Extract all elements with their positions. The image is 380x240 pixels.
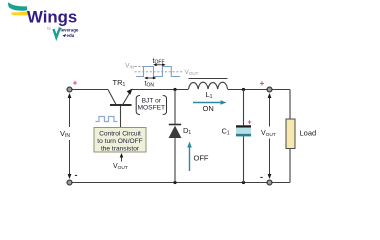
Vout measure arrow lower: [269, 139, 271, 178]
wire bottom rail: [70, 182, 291, 184]
capacitor C1 dielectric: [236, 128, 251, 134]
svg-text:VIN: VIN: [125, 63, 134, 70]
svg-text:tOFF: tOFF: [153, 56, 165, 66]
transistor TR1 base wire: [120, 106, 122, 128]
svg-text:D1: D1: [183, 126, 191, 136]
svg-text:-: -: [260, 172, 263, 182]
OFF current arrow: [189, 146, 191, 171]
svg-text:VOUT: VOUT: [113, 163, 128, 171]
capacitor C1 bottom plate: [236, 134, 251, 137]
transistor TR1 emitter arrowhead: [127, 89, 133, 95]
Vin measure arrow lower: [69, 140, 71, 178]
diode D1 triangle: [169, 126, 182, 138]
capacitor C1 wire upper: [243, 90, 245, 126]
svg-text:leverage: leverage: [61, 28, 79, 33]
svg-text:VIN: VIN: [60, 129, 70, 139]
svg-text:BJT or: BJT or: [142, 97, 162, 104]
wire right edge bottom: [289, 149, 291, 183]
svg-text:TR1: TR1: [113, 78, 126, 88]
svg-text:+: +: [73, 79, 78, 88]
diode D1 wire lower: [174, 138, 176, 183]
logo wing swoosh teal: [8, 2, 27, 10]
svg-text:C1: C1: [222, 127, 230, 137]
logo leverage-edu check: [54, 28, 61, 38]
capacitor C1 top plate: [236, 125, 251, 127]
svg-text:to turn ON/OFF: to turn ON/OFF: [97, 138, 142, 145]
svg-text:edu: edu: [67, 33, 75, 38]
inductor L1 top bar: [189, 78, 228, 80]
capacitor C1 wire lower: [243, 136, 245, 182]
node input minus terminal: [67, 180, 72, 185]
waveform mid dashed level: [135, 71, 184, 73]
transistor TR1 emitter diagonal: [123, 92, 131, 106]
svg-text:ON: ON: [203, 104, 214, 113]
wire top rail right segment: [228, 89, 291, 91]
waveform tON marker: [146, 77, 148, 79]
node output minus terminal: [267, 180, 272, 185]
inductor L1 coil: [189, 82, 228, 89]
Vin measure arrow upper: [69, 95, 71, 128]
svg-text:+: +: [247, 120, 251, 127]
junction capacitor bottom: [242, 181, 245, 184]
Vout measure arrow upper: [269, 95, 271, 127]
svg-text:Wings: Wings: [27, 8, 77, 27]
svg-text:L1: L1: [206, 90, 213, 100]
wire top rail left segment: [70, 89, 109, 91]
transistor TR1 base bar: [110, 104, 132, 106]
control circuit box: [94, 128, 146, 153]
control Vout arrow: [121, 155, 123, 162]
diode D1 cathode bar: [169, 124, 181, 126]
transistor TR1 collector diagonal: [108, 90, 116, 105]
node output plus terminal: [267, 87, 272, 92]
waveform tOFF marker: [155, 64, 157, 66]
svg-text:VOUT: VOUT: [261, 130, 276, 138]
svg-text:+: +: [260, 79, 265, 88]
waveform VIN dashed level: [135, 66, 145, 68]
svg-text:the transistor: the transistor: [101, 146, 140, 153]
svg-text:-: -: [75, 170, 78, 180]
bracket BJT or MOSFET: [136, 96, 140, 115]
junction diode bottom: [173, 181, 176, 184]
svg-text:OFF: OFF: [194, 154, 209, 163]
diode D1 wire upper: [174, 90, 176, 125]
ON current arrow: [193, 102, 222, 104]
gate drive square wave glyph: [96, 117, 118, 122]
node input plus terminal: [67, 87, 72, 92]
wire top rail middle segment: [132, 89, 189, 91]
load resistor box: [286, 119, 295, 149]
logo wing swoosh yellow: [11, 11, 28, 15]
junction capacitor top: [242, 88, 245, 91]
svg-text:tON: tON: [145, 79, 155, 89]
svg-text:Load: Load: [300, 129, 317, 138]
wire right edge top: [289, 90, 291, 120]
logo edu arrow: [63, 34, 67, 37]
waveform square wave: [136, 67, 180, 77]
svg-text:Control Circuit: Control Circuit: [99, 131, 141, 138]
svg-text:MOSFET: MOSFET: [138, 105, 165, 112]
svg-text:by: by: [47, 27, 51, 31]
junction switch node: [173, 88, 176, 91]
svg-text:VOUT: VOUT: [185, 69, 199, 76]
